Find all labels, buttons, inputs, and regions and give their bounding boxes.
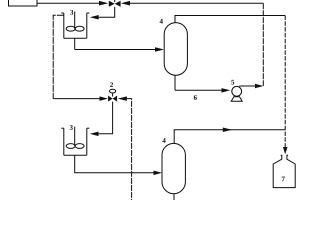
label 3 top [70, 10, 73, 15]
wire vessel C4b overhead to product line [174, 130, 285, 144]
wire vessel C4 overhead [175, 16, 285, 23]
wire valve 2 down to tank T3b [99, 102, 113, 134]
label 5 [231, 80, 234, 85]
wire into valve 2 right [118, 96, 127, 101]
label 6 [194, 95, 197, 100]
label 4 top [160, 19, 163, 24]
wire tank T3 side elbow [53, 15, 64, 98]
valve V1 [109, 0, 121, 7]
mixer tank T3 bottom [61, 127, 89, 156]
wire feed box to valve 1 [37, 2, 100, 4]
label 2 [110, 82, 113, 87]
feed box [9, 0, 38, 6]
wire recycle vertical [262, 3, 264, 86]
wire tank T3b outlet into vessel C4b [75, 155, 154, 173]
valve V2 control [108, 89, 117, 101]
wire tank outlet into vessel C4 [74, 38, 76, 49]
label 7 [282, 177, 285, 182]
wire vessel C4b bottom stub [173, 194, 175, 200]
label 3 bottom [70, 125, 73, 130]
wire stream 6 vessel to pump [174, 75, 176, 90]
bottle B7 [273, 155, 295, 187]
vessel C4 bottom column [162, 143, 185, 193]
wire valve1 branch to tank T3 [99, 7, 115, 17]
wire recycle top into valve 1 [121, 1, 130, 6]
wire product vertical to bottle [284, 16, 286, 149]
pump P5 [231, 86, 242, 101]
wire pump discharge [239, 85, 255, 87]
vessel C4 top column [164, 23, 187, 76]
wire into valve 2 left [53, 98, 100, 100]
label 4 bottom [162, 138, 165, 143]
mixer tank T3 top [61, 12, 89, 39]
